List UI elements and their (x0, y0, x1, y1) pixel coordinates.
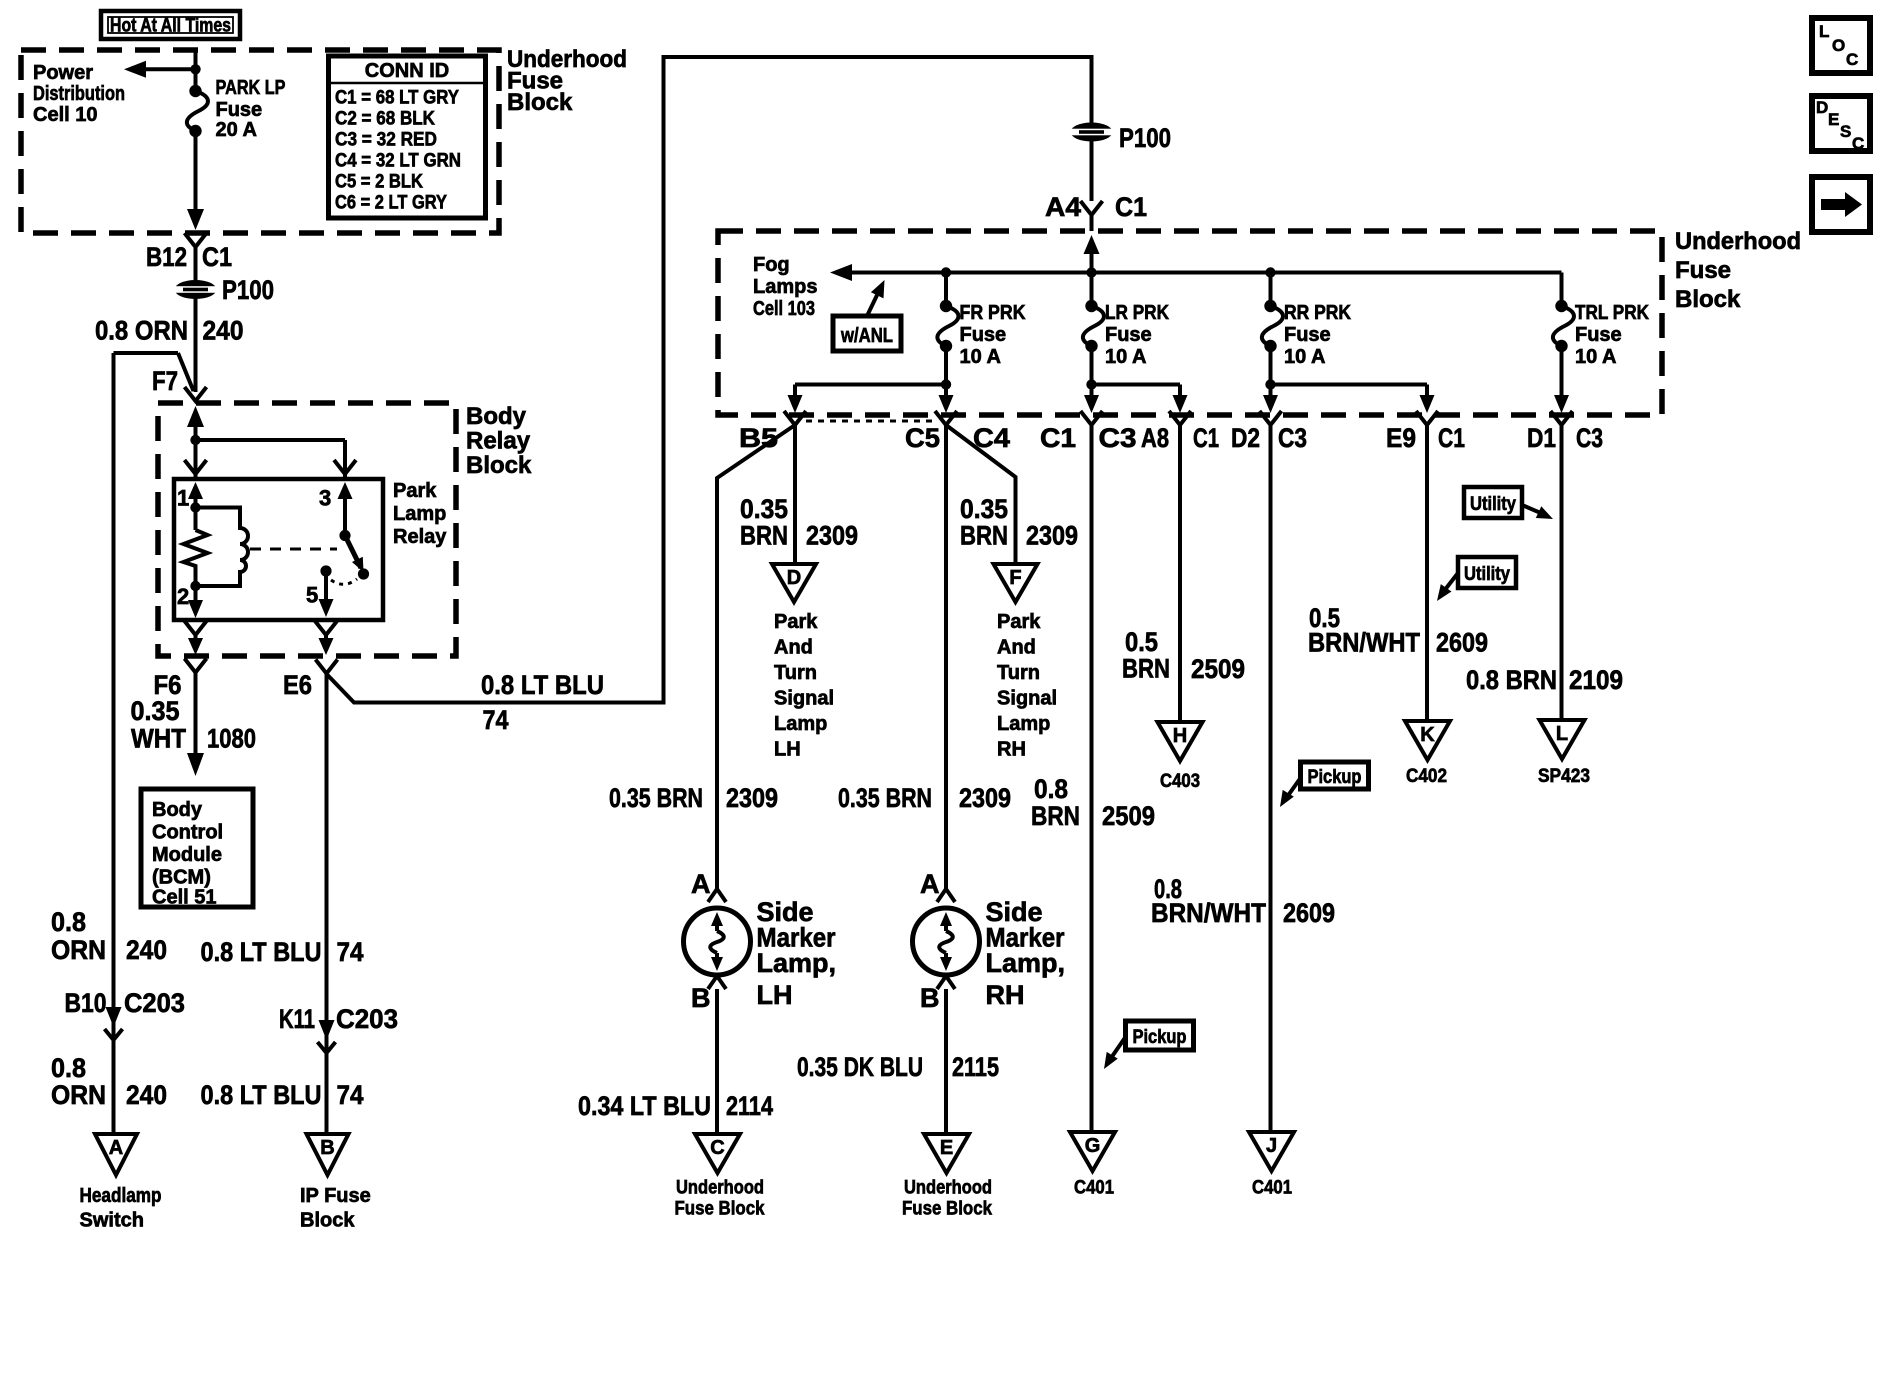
bus junction dot FR PRK (941, 267, 951, 277)
svg-text:Signal: Signal (774, 688, 834, 710)
svg-text:2309: 2309 (726, 783, 778, 813)
grommet P100 (right) (1071, 123, 1113, 142)
svg-text:BRN: BRN (1122, 654, 1170, 684)
Underhood Fuse Block (right) dashed border (718, 231, 1662, 415)
Pickup tag (G wire) (1126, 1021, 1194, 1050)
Pickup tag (J wire) (1301, 762, 1369, 789)
svg-text:E: E (1828, 110, 1840, 129)
CONN ID table (329, 56, 486, 218)
grommet P100 (left) (175, 280, 217, 299)
junction dot at fuse feed (190, 64, 200, 74)
svg-text:C: C (710, 1137, 724, 1159)
pin B chevron RH (937, 976, 955, 989)
arrowhead at block exit (187, 209, 204, 230)
svg-text:B: B (920, 983, 940, 1013)
svg-text:C203: C203 (336, 1004, 398, 1034)
svg-text:Utility: Utility (1464, 564, 1510, 585)
relay switch arm (345, 536, 361, 569)
svg-text:2114: 2114 (726, 1091, 773, 1121)
svg-text:P100: P100 (1119, 123, 1171, 153)
svg-text:C1: C1 (1193, 423, 1219, 453)
svg-text:Fuse: Fuse (960, 324, 1007, 346)
svg-text:And: And (774, 637, 813, 659)
wire: A8/C1 to H (1178, 425, 1182, 722)
svg-text:240: 240 (203, 316, 244, 346)
arrowhead exit D1 (1554, 395, 1569, 413)
svg-text:H: H (1173, 725, 1187, 747)
svg-text:L: L (1819, 22, 1830, 41)
svg-text:2509: 2509 (1102, 801, 1155, 831)
arrowhead from w/ANL (871, 280, 885, 298)
svg-text:Body: Body (466, 403, 527, 430)
svg-text:Pickup: Pickup (1133, 1027, 1187, 1048)
svg-text:C5 = 2 BLK: C5 = 2 BLK (335, 172, 423, 193)
svg-text:WHT: WHT (131, 724, 186, 754)
fuse PARK LP 20 A (187, 91, 208, 131)
wire: C1/C3 to G (pickup) (1090, 425, 1094, 1132)
connector B10 C203 half (105, 1029, 123, 1040)
svg-text:Hot At All Times: Hot At All Times (110, 16, 231, 37)
svg-text:Lamp: Lamp (997, 713, 1050, 735)
arrowhead exit D2 (1263, 395, 1278, 413)
svg-text:Lamp: Lamp (774, 713, 827, 735)
svg-text:Cell 51: Cell 51 (152, 887, 216, 909)
svg-text:C203: C203 (124, 988, 185, 1018)
arrowhead exit B5 (788, 395, 803, 413)
triangle J C401 (1249, 1132, 1294, 1171)
svg-text:LR PRK: LR PRK (1105, 302, 1169, 324)
wire: B12 to P100 (194, 247, 198, 282)
connector A8 C1 half (1169, 411, 1191, 425)
connector B10 C203 (106, 1007, 122, 1027)
svg-text:B12: B12 (146, 242, 187, 272)
svg-text:CONN ID: CONN ID (365, 60, 449, 82)
svg-text:0.8: 0.8 (51, 1053, 86, 1083)
triangle G C401 (1070, 1132, 1115, 1171)
svg-text:ORN: ORN (51, 935, 106, 965)
svg-text:74: 74 (337, 1080, 364, 1110)
svg-text:Fuse Block: Fuse Block (675, 1199, 765, 1220)
relay pin 5 (320, 565, 331, 576)
svg-text:0.8 BRN: 0.8 BRN (1466, 665, 1557, 695)
svg-text:C1 = 68 LT GRY: C1 = 68 LT GRY (335, 88, 459, 109)
next-page arrow icon box (1812, 177, 1870, 232)
svg-text:0.8 LT BLU: 0.8 LT BLU (201, 937, 322, 967)
connector F6 half (185, 659, 207, 673)
svg-text:ORN: ORN (51, 1080, 106, 1110)
wire: B5 to side marker LH (diagonal) (717, 425, 795, 890)
svg-text:RH: RH (986, 980, 1025, 1010)
svg-text:10 A: 10 A (1575, 346, 1617, 368)
wire: F7 feed inside block (194, 424, 198, 479)
connector B12 C1 half (185, 233, 207, 247)
wire: lamp LH pin B to C triangle (715, 989, 719, 1134)
Power Distribution / Underhood Fuse Block (left) dashed border (21, 50, 499, 233)
svg-text:2309: 2309 (959, 783, 1011, 813)
svg-text:C3: C3 (1278, 423, 1307, 453)
svg-text:2609: 2609 (1436, 628, 1488, 658)
svg-text:And: And (997, 637, 1036, 659)
svg-text:0.5: 0.5 (1125, 627, 1158, 657)
svg-text:Fuse: Fuse (216, 99, 263, 121)
svg-text:0.8 ORN: 0.8 ORN (95, 316, 188, 346)
svg-text:Fuse: Fuse (1575, 324, 1622, 346)
svg-text:10 A: 10 A (1105, 346, 1147, 368)
svg-text:1080: 1080 (207, 724, 256, 754)
svg-text:S: S (1840, 122, 1852, 141)
connector F7 half (185, 387, 207, 401)
svg-text:w/ANL: w/ANL (840, 325, 893, 347)
svg-text:P100: P100 (222, 275, 274, 305)
connector A4 C1 half (1081, 201, 1103, 215)
svg-text:B: B (691, 983, 711, 1013)
svg-text:Distribution: Distribution (33, 83, 125, 105)
svg-text:2509: 2509 (1191, 654, 1245, 684)
wire: B5 to D triangle (793, 425, 797, 564)
svg-text:Fuse: Fuse (1105, 324, 1152, 346)
pin B chevron LH (708, 976, 726, 989)
arrowhead from Utility to L wire (1536, 506, 1553, 519)
relay pin 3 switch contact (338, 482, 353, 499)
svg-text:IP Fuse: IP Fuse (300, 1185, 371, 1207)
svg-text:240: 240 (126, 1080, 167, 1110)
wire: D1/C3 to L (1560, 425, 1564, 720)
connector K11 C203 half (318, 1042, 336, 1053)
svg-text:240: 240 (126, 935, 167, 965)
wire: branch to Power Distribution (left arrow) (146, 67, 196, 71)
svg-text:0.35 BRN: 0.35 BRN (838, 783, 932, 813)
svg-text:Switch: Switch (80, 1210, 144, 1232)
relay K1 Park Lamp Relay box (174, 479, 383, 620)
svg-text:A: A (920, 869, 940, 899)
svg-text:0.35: 0.35 (131, 696, 180, 726)
svg-text:Lamp,: Lamp, (986, 948, 1066, 978)
svg-text:0.35 BRN: 0.35 BRN (609, 783, 703, 813)
svg-text:Fog: Fog (753, 254, 790, 276)
arrowhead entering fuse block (1084, 235, 1100, 254)
svg-text:Block: Block (466, 452, 532, 479)
svg-text:Cell 10: Cell 10 (33, 104, 97, 126)
svg-text:PARK LP: PARK LP (216, 77, 286, 99)
arrowhead to Power Distribution (124, 61, 146, 78)
svg-text:E6: E6 (283, 670, 312, 700)
wire: F6 to BCM (194, 673, 198, 756)
connector pin2 exit half (185, 621, 207, 635)
svg-text:K11: K11 (279, 1004, 315, 1034)
svg-text:C: C (1846, 50, 1859, 69)
svg-text:O: O (1832, 36, 1846, 55)
svg-text:C6 = 2 LT GRY: C6 = 2 LT GRY (335, 193, 447, 214)
svg-text:C: C (1852, 134, 1865, 153)
svg-text:3: 3 (319, 486, 331, 511)
svg-text:F: F (1009, 567, 1021, 589)
svg-text:C1: C1 (202, 242, 232, 272)
svg-text:C401: C401 (1252, 1178, 1292, 1199)
svg-text:2: 2 (177, 584, 189, 609)
svg-text:A8: A8 (1141, 423, 1169, 453)
svg-text:10 A: 10 A (960, 346, 1002, 368)
wire: P100 to A4 (1090, 140, 1094, 201)
svg-text:K: K (1420, 724, 1435, 746)
svg-text:BRN: BRN (1031, 801, 1080, 831)
relay throw dotted arc (331, 579, 357, 584)
Hot At All Times banner (101, 11, 240, 39)
connector C1 C3 half (1081, 411, 1103, 425)
connector C5 C4 half (935, 411, 957, 425)
svg-text:BRN: BRN (740, 521, 788, 551)
svg-text:C3: C3 (1099, 423, 1137, 453)
triangle L SP423 (1540, 720, 1585, 759)
svg-text:0.8: 0.8 (51, 907, 86, 937)
svg-text:Underhood: Underhood (676, 1178, 764, 1199)
svg-text:RR PRK: RR PRK (1284, 302, 1351, 324)
arrowhead from Utility to K wire (1437, 584, 1452, 601)
svg-text:F7: F7 (152, 366, 178, 396)
svg-text:LH: LH (757, 980, 793, 1010)
svg-text:A4: A4 (1045, 192, 1081, 222)
svg-text:Module: Module (152, 844, 222, 866)
svg-text:74: 74 (483, 705, 509, 735)
connector E6 half (316, 660, 338, 674)
svg-text:D2: D2 (1231, 423, 1260, 453)
connector relay pin3 half (334, 460, 356, 474)
wire: long left drop to headlamp switch (112, 353, 116, 1134)
svg-text:Fuse Block: Fuse Block (902, 1199, 992, 1220)
svg-text:2609: 2609 (1283, 898, 1335, 928)
wire: C4 to F triangle (diagonal) (946, 425, 1016, 564)
connector D1 C3 half (1551, 411, 1573, 425)
arrowhead exit C5 (939, 395, 954, 413)
arrowhead exit E9 (1420, 395, 1435, 413)
wire: PARK LP fuse output (194, 131, 198, 210)
bus wire inside fuse block (852, 271, 1562, 275)
svg-text:Fuse: Fuse (1675, 257, 1731, 284)
connector pin5 exit half (315, 621, 337, 635)
svg-text:C403: C403 (1160, 771, 1200, 792)
svg-text:Park: Park (997, 611, 1041, 633)
svg-text:BRN/WHT: BRN/WHT (1151, 898, 1266, 928)
svg-text:Headlamp: Headlamp (80, 1185, 162, 1207)
relay pin 1 (188, 482, 203, 499)
wire: E9/C1 to K (1425, 425, 1429, 721)
relay coil resistor (184, 530, 208, 586)
svg-text:C1: C1 (1040, 423, 1076, 453)
svg-text:0.8: 0.8 (1034, 774, 1068, 804)
wire: RR PRK fuse output split (1269, 346, 1273, 398)
svg-text:10 A: 10 A (1284, 346, 1326, 368)
triangle D Park/Turn LH (772, 564, 816, 602)
Utility tag (L wire) (1464, 487, 1522, 518)
pin A chevron RH (937, 889, 955, 902)
svg-text:Cell 103: Cell 103 (753, 298, 815, 320)
svg-text:5: 5 (306, 583, 318, 608)
svg-text:C1: C1 (1115, 192, 1147, 222)
svg-text:Signal: Signal (997, 688, 1057, 710)
svg-text:Block: Block (1675, 286, 1741, 313)
svg-text:Lamp: Lamp (393, 503, 446, 525)
connector K11 C203 (319, 1020, 335, 1040)
svg-text:Park: Park (774, 611, 818, 633)
svg-text:C3: C3 (1576, 423, 1603, 453)
wire: jumper to relay pin 3 (196, 438, 346, 442)
Body Control Module (BCM) box (141, 789, 253, 907)
svg-text:B: B (320, 1137, 334, 1159)
svg-text:2309: 2309 (806, 521, 858, 551)
svg-text:Relay: Relay (393, 526, 447, 548)
bus junction dot RR PRK (1265, 267, 1275, 277)
junction dot relay feed (190, 435, 200, 445)
svg-text:Relay: Relay (466, 428, 531, 455)
svg-text:Underhood: Underhood (1675, 228, 1801, 255)
arrowhead from Pickup to G wire (1104, 1052, 1118, 1069)
wire: C5 to side marker RH (944, 425, 948, 890)
svg-text:J: J (1266, 1135, 1277, 1157)
svg-text:Block: Block (507, 89, 573, 116)
triangle C to Underhood Fuse Block (695, 1134, 740, 1173)
svg-text:BRN/WHT: BRN/WHT (1308, 628, 1420, 658)
arrowhead exit A8 (1173, 395, 1188, 413)
wire: FR PRK fuse output split (944, 346, 948, 398)
arrowhead entering Body Relay Block (187, 406, 204, 427)
svg-text:Pickup: Pickup (1308, 767, 1362, 788)
triangle F Park/Turn RH (994, 564, 1038, 602)
svg-text:0.35 DK BLU: 0.35 DK BLU (797, 1052, 923, 1082)
svg-text:TRL PRK: TRL PRK (1575, 302, 1649, 324)
triangle E to Underhood Fuse Block (924, 1134, 969, 1173)
wire: feed into PARK LP fuse (194, 50, 198, 91)
svg-text:A: A (691, 869, 711, 899)
DESC icon box (1812, 96, 1870, 151)
wire: TRL PRK fuse output (1560, 346, 1564, 398)
fuse TRL PRK 10 A (1553, 306, 1574, 346)
arrowhead exit C1 (1084, 395, 1099, 413)
svg-text:Underhood: Underhood (904, 1178, 992, 1199)
triangle K C402 (1405, 721, 1450, 760)
svg-text:(BCM): (BCM) (152, 867, 211, 889)
wire: branch to headlamp switch (left tap) (114, 351, 179, 355)
wire: LR PRK fuse output split (1090, 346, 1094, 398)
svg-text:L: L (1556, 723, 1568, 745)
svg-text:D: D (787, 567, 801, 589)
fuse LR PRK 10 A (1083, 306, 1104, 346)
Utility tag (K wire) (1458, 557, 1516, 588)
svg-text:G: G (1085, 1135, 1101, 1157)
svg-text:Lamp,: Lamp, (757, 948, 837, 978)
pin A chevron LH (708, 889, 726, 902)
svg-text:C401: C401 (1074, 1178, 1114, 1199)
svg-text:Power: Power (33, 62, 93, 84)
svg-text:C2 = 68 BLK: C2 = 68 BLK (335, 109, 435, 130)
svg-text:LH: LH (774, 739, 801, 761)
svg-text:Lamps: Lamps (753, 276, 817, 298)
svg-text:2309: 2309 (1026, 521, 1078, 551)
svg-text:Park: Park (393, 480, 437, 502)
arrowhead from Pickup to J wire (1280, 790, 1294, 807)
svg-text:B10: B10 (65, 988, 107, 1018)
svg-text:Fuse: Fuse (1284, 324, 1331, 346)
wire: P100 to F7 (194, 297, 198, 392)
fuse FR PRK 10 A (937, 306, 958, 346)
svg-text:C3 = 32 RED: C3 = 32 RED (335, 130, 437, 151)
triangle B to IP Fuse Block (307, 1134, 349, 1175)
wire: lamp RH pin B to E triangle (944, 989, 948, 1134)
dotted connector link B5-C5 (806, 420, 935, 423)
wire: D2/C3 to J (pickup) (1269, 425, 1273, 1132)
relay coil (196, 508, 249, 587)
connector D2 C3 half (1260, 411, 1282, 425)
triangle H C403 (1158, 722, 1203, 761)
svg-text:E9: E9 (1386, 423, 1416, 453)
connector B5 half (784, 411, 806, 425)
arrowhead to Fog Lamps (830, 264, 852, 281)
connector E9 C1 half (1416, 411, 1438, 425)
svg-text:BRN: BRN (960, 521, 1008, 551)
svg-text:0.8 LT BLU: 0.8 LT BLU (481, 670, 604, 700)
bus junction dot LR PRK (1086, 267, 1096, 277)
svg-text:74: 74 (337, 937, 364, 967)
Body Relay Block dashed border (158, 403, 456, 656)
svg-text:Block: Block (300, 1210, 355, 1232)
svg-text:A: A (109, 1137, 123, 1159)
svg-text:0.34 LT BLU: 0.34 LT BLU (578, 1091, 711, 1121)
wire: E6 down to IP fuse block (325, 674, 329, 1135)
triangle A to Headlamp Switch (95, 1134, 137, 1175)
svg-text:C5: C5 (905, 423, 940, 453)
svg-text:C402: C402 (1406, 766, 1447, 787)
svg-text:Utility: Utility (1470, 494, 1516, 515)
svg-text:Turn: Turn (997, 662, 1040, 684)
relay actuation dashed link (250, 548, 337, 551)
svg-text:RH: RH (997, 739, 1026, 761)
fuse RR PRK 10 A (1262, 306, 1283, 346)
svg-text:0.8 LT BLU: 0.8 LT BLU (201, 1080, 322, 1110)
svg-text:2109: 2109 (1569, 665, 1623, 695)
svg-text:0.35: 0.35 (960, 494, 1008, 524)
svg-text:0.35: 0.35 (740, 494, 788, 524)
svg-text:Body: Body (152, 799, 203, 821)
svg-text:D1: D1 (1527, 423, 1556, 453)
LOC icon box (1812, 18, 1870, 73)
svg-text:C4 = 32 LT GRN: C4 = 32 LT GRN (335, 151, 461, 172)
svg-text:2115: 2115 (952, 1052, 999, 1082)
svg-text:Control: Control (152, 822, 223, 844)
svg-text:Turn: Turn (774, 662, 817, 684)
w/ANL tag (833, 316, 901, 351)
svg-text:C1: C1 (1438, 423, 1465, 453)
wire: E6 branch 0.8 LT BLU 74 over the top (328, 57, 1092, 703)
svg-text:1: 1 (177, 486, 189, 511)
svg-text:FR PRK: FR PRK (960, 302, 1026, 324)
svg-text:SP423: SP423 (1538, 766, 1590, 787)
svg-text:E: E (940, 1137, 953, 1159)
svg-text:20 A: 20 A (216, 119, 258, 141)
connector relay pin1 half (185, 460, 207, 474)
